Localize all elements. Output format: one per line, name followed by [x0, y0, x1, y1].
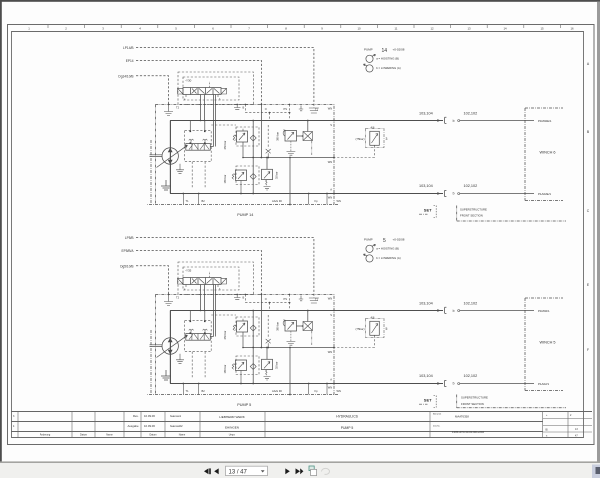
frame column ticks top: [48, 25, 560, 29]
pump 14 section: [136, 48, 563, 218]
pump 5 section: [136, 238, 563, 408]
toolbar top border: [0, 461, 600, 463]
toolbar pages icon back: [309, 466, 314, 471]
title block column dividers: [18, 412, 568, 439]
section 2 variable texts: [120, 236, 555, 407]
title block: [11, 412, 592, 439]
toolbar page field dropdown: [261, 470, 265, 472]
toolbar background: [0, 463, 600, 478]
superstructure boundary section 1: [457, 206, 566, 222]
title block row lines: [11, 412, 592, 432]
frame column numbers: [28, 27, 574, 31]
toolbar prev-page button: [214, 468, 219, 474]
title header row labels: [40, 434, 236, 437]
section 1 variable texts: [118, 46, 555, 217]
toolbar first-page button: [204, 468, 209, 474]
window right scroll strip: [597, 2, 600, 462]
window top border: [0, 0, 600, 2]
toolbar pages icon front: [311, 469, 317, 475]
toolbar page field: [226, 466, 268, 475]
frame row letters right: [587, 62, 590, 352]
toolbar next-page button: [285, 468, 290, 474]
title block right mini row lines: [543, 419, 592, 432]
superstructure boundary section 2: [457, 395, 566, 408]
status corner icon: [592, 465, 600, 479]
toolbar disabled rotate icon: [321, 468, 329, 474]
svg-text:13 / 47: 13 / 47: [229, 470, 248, 476]
window left border: [0, 0, 2, 462]
toolbar last-page button: [296, 468, 301, 474]
